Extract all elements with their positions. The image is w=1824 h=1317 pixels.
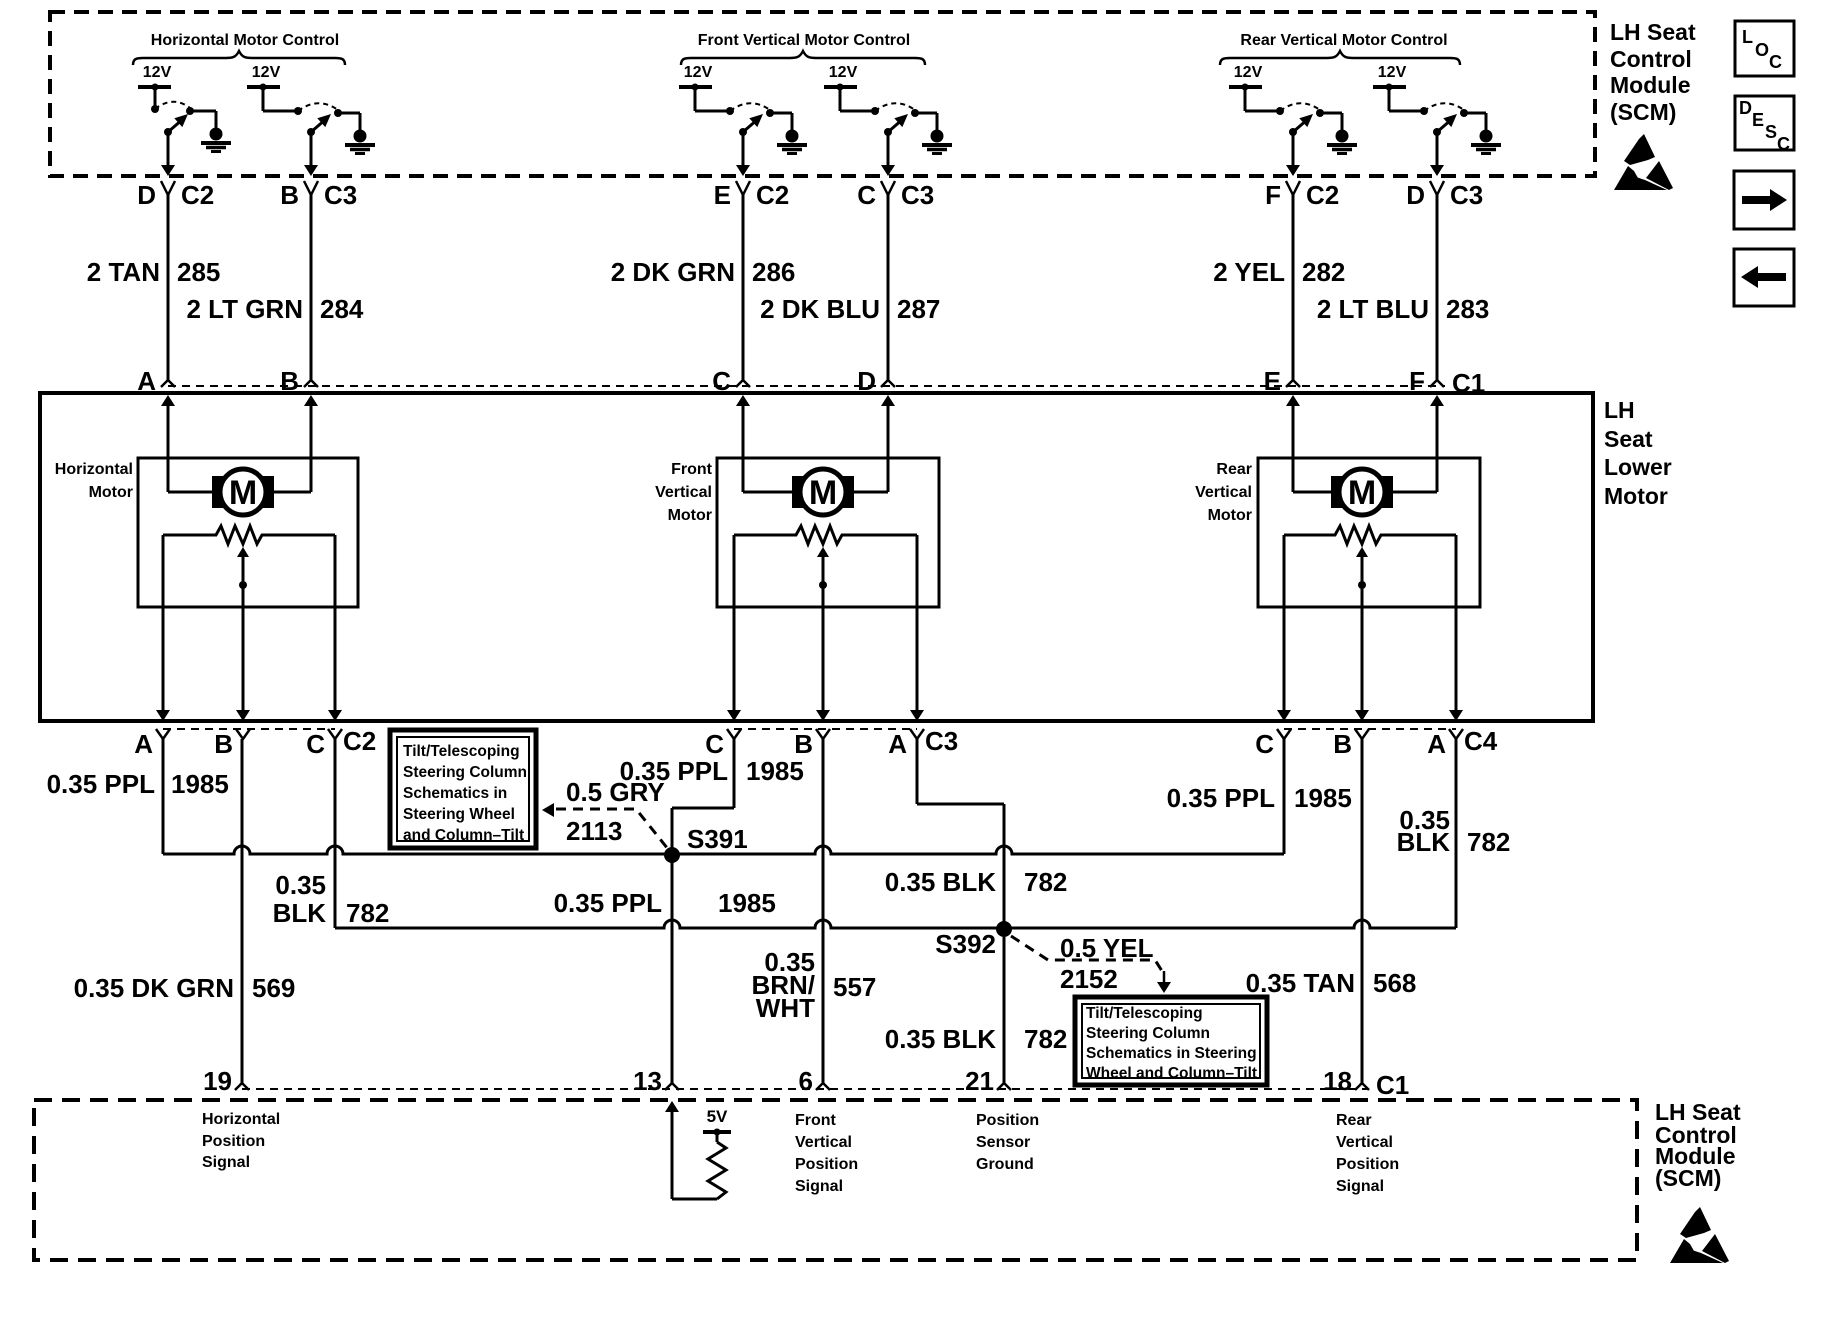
wire 2 LT BLU 283 <box>1317 195 1490 380</box>
label: LH Seat Control Module (SCM) bottom right <box>1655 1099 1741 1191</box>
svg-text:C3: C3 <box>1450 180 1483 210</box>
svg-text:F: F <box>1265 180 1281 210</box>
svg-text:S392: S392 <box>935 929 996 959</box>
svg-text:782: 782 <box>1467 827 1510 857</box>
svg-text:C: C <box>1777 134 1790 154</box>
svg-text:0.35 DK GRN: 0.35 DK GRN <box>74 973 234 1003</box>
pin 6 of SCM connector C1 <box>799 1066 830 1096</box>
ESD sensitivity symbol top right <box>1614 134 1673 190</box>
wire 2 YEL 282 <box>1213 195 1345 380</box>
label: Rear Vertical Motor Control <box>1220 32 1460 65</box>
wire 0.35 BRN/WHT 557 front vertical position signal <box>751 739 876 1083</box>
pin A of connector C2 <box>134 729 170 759</box>
label: Horizontal Position Signal <box>202 1111 280 1171</box>
wire 0.35 PPL 1985 net (horizontal position signal bus) <box>163 739 1284 854</box>
label: Horizontal Motor <box>55 461 133 501</box>
pin 13 of SCM connector C1 <box>633 1066 679 1096</box>
svg-text:D: D <box>1739 98 1752 118</box>
svg-text:2 DK BLU: 2 DK BLU <box>760 294 880 324</box>
pin D connector C2 of SCM <box>137 180 214 210</box>
wire Horizontal Motor pot right terminal <box>328 535 342 721</box>
svg-text:19: 19 <box>203 1066 232 1096</box>
svg-text:1985: 1985 <box>1294 783 1352 813</box>
svg-text:A: A <box>134 729 153 759</box>
module box: LH Seat Lower Motor <box>40 393 1593 721</box>
pin C connector C3 of SCM <box>857 180 934 210</box>
svg-text:568: 568 <box>1373 968 1416 998</box>
svg-text:C4: C4 <box>1464 726 1498 756</box>
wire into Horizontal Motor right <box>274 395 318 492</box>
wire 0.35 TAN 568 rear vertical position signal <box>1246 739 1417 1083</box>
svg-text:2 LT BLU: 2 LT BLU <box>1317 294 1429 324</box>
wire into Front Vertical Motor left <box>736 395 792 492</box>
splice S392 <box>935 921 1012 959</box>
pin B connector C3 of SCM <box>280 180 357 210</box>
svg-text:C2: C2 <box>181 180 214 210</box>
svg-text:C: C <box>1255 729 1274 759</box>
5V reference and pull-up resistor <box>665 1101 731 1199</box>
svg-text:18: 18 <box>1323 1066 1352 1096</box>
relay K3 front vertical up (12V SPDT motor control switch) <box>679 64 807 176</box>
svg-text:0.5 GRY: 0.5 GRY <box>566 777 665 807</box>
label: Rear Vertical Position Signal <box>1336 1112 1399 1195</box>
pin B of motor connector C1 <box>280 366 318 396</box>
label 0.35 PPL 1985 left <box>47 769 229 799</box>
leader 0.5 YEL 2152 to steering column schematics <box>1011 933 1171 994</box>
nav box: back arrow <box>1734 249 1794 306</box>
svg-text:782: 782 <box>1024 867 1067 897</box>
svg-text:L: L <box>1742 27 1753 47</box>
motor M: Front Vertical Motor <box>792 469 854 515</box>
connector C1 line (LH Seat Lower Motor top) <box>168 385 1445 387</box>
svg-text:C2: C2 <box>343 726 376 756</box>
pin 21 of SCM connector C1 <box>965 1066 1011 1096</box>
svg-text:557: 557 <box>833 972 876 1002</box>
pin E connector C2 of SCM <box>714 180 790 210</box>
svg-text:1985: 1985 <box>171 769 229 799</box>
svg-text:C2: C2 <box>1306 180 1339 210</box>
relay K1 horizontal fwd (12V SPDT motor control switch) <box>138 64 231 176</box>
wire 0.35 DK GRN 569 horizontal position signal <box>74 739 296 1083</box>
svg-text:M: M <box>809 474 837 512</box>
connector line C3 under Front Vertical Motor <box>734 728 917 730</box>
svg-text:0.35 BLK: 0.35 BLK <box>885 1024 996 1054</box>
svg-text:C3: C3 <box>324 180 357 210</box>
label: Position Sensor Ground <box>976 1112 1039 1173</box>
svg-text:2 DK GRN: 2 DK GRN <box>611 257 735 287</box>
pin B of connector C4 <box>1333 729 1369 759</box>
svg-text:D: D <box>137 180 156 210</box>
svg-text:0.35 PPL: 0.35 PPL <box>1167 783 1276 813</box>
wire Rear Vertical Motor pot wiper <box>1355 547 1369 721</box>
label: LH Seat Control Module (SCM) top right <box>1610 19 1696 125</box>
wire Horizontal Motor pot left terminal <box>156 535 170 721</box>
svg-text:O: O <box>1755 40 1769 60</box>
svg-text:E: E <box>1752 110 1764 130</box>
pin B of connector C2 <box>214 729 250 759</box>
svg-text:D: D <box>1406 180 1425 210</box>
svg-text:285: 285 <box>177 257 220 287</box>
svg-text:C2: C2 <box>756 180 789 210</box>
svg-text:0.35 BLK: 0.35 BLK <box>885 867 996 897</box>
wire 0.35 PPL 1985 from front motor pin C to S391 <box>620 739 804 854</box>
relay K2 horizontal rev (12V SPDT motor control switch) <box>247 64 375 176</box>
nav box: forward arrow <box>1734 171 1794 229</box>
svg-text:0.35 TAN: 0.35 TAN <box>1246 968 1355 998</box>
nav box: LOC <box>1735 21 1794 76</box>
pin A of connector C3 <box>888 729 924 759</box>
wire 2 DK BLU 287 <box>760 195 940 380</box>
svg-text:S: S <box>1765 122 1777 142</box>
svg-text:C3: C3 <box>925 726 958 756</box>
wire Horizontal Motor pot wiper <box>236 547 250 721</box>
svg-text:1985: 1985 <box>718 888 776 918</box>
svg-text:284: 284 <box>320 294 364 324</box>
wire Rear Vertical Motor pot right terminal <box>1449 535 1463 721</box>
svg-text:12V: 12V <box>252 64 281 81</box>
pin C of connector C4 <box>1255 729 1291 759</box>
connector C1 line (SCM bottom) <box>242 1088 1368 1090</box>
svg-text:283: 283 <box>1446 294 1489 324</box>
Rear Vertical Motor assembly outline <box>1258 458 1480 607</box>
wire Front Vertical Motor pot left terminal <box>727 535 741 721</box>
label: Rear Vertical Motor <box>1195 461 1252 524</box>
pin 19 of SCM connector C1 <box>203 1066 249 1096</box>
svg-text:21: 21 <box>965 1066 994 1096</box>
label 0.35 BLK 782 left <box>273 870 390 928</box>
svg-text:2 LT GRN: 2 LT GRN <box>186 294 303 324</box>
pin B of connector C3 <box>794 729 830 759</box>
svg-text:C1: C1 <box>1376 1070 1409 1100</box>
svg-text:0.35BLK: 0.35BLK <box>273 870 327 928</box>
connector line C4 under Rear Vertical Motor <box>1284 728 1456 730</box>
wire Rear Vertical Motor pot left terminal <box>1277 535 1291 721</box>
relay K6 rear vertical down (12V SPDT motor control switch) <box>1373 64 1501 176</box>
label: LH Seat Lower Motor <box>1604 397 1672 509</box>
svg-text:C: C <box>306 729 325 759</box>
motor M: Rear Vertical Motor <box>1331 469 1393 515</box>
svg-text:282: 282 <box>1302 257 1345 287</box>
wire into Horizontal Motor left <box>161 395 212 492</box>
pin D of motor connector C1 <box>857 366 895 396</box>
svg-text:0.35 PPL: 0.35 PPL <box>554 888 663 918</box>
wire 0.35 PPL 1985 from S391 to pin 13 <box>554 862 776 1083</box>
svg-text:12V: 12V <box>1378 64 1407 81</box>
svg-text:782: 782 <box>346 898 389 928</box>
svg-text:12V: 12V <box>684 64 713 81</box>
label 0.35 PPL 1985 right <box>1167 783 1352 813</box>
wire 2 TAN 285 <box>87 195 221 380</box>
splice S391 <box>664 824 748 863</box>
svg-text:13: 13 <box>633 1066 662 1096</box>
svg-text:Front Vertical Motor Control: Front Vertical Motor Control <box>698 32 910 49</box>
ESD sensitivity symbol bottom right <box>1670 1207 1729 1263</box>
svg-text:A: A <box>888 729 907 759</box>
svg-text:S391: S391 <box>687 824 748 854</box>
svg-text:5V: 5V <box>707 1107 728 1126</box>
svg-text:782: 782 <box>1024 1024 1067 1054</box>
svg-text:2113: 2113 <box>566 816 622 846</box>
module box: LH Seat Control Module (SCM), top <box>50 12 1595 176</box>
Front Vertical Motor assembly outline <box>717 458 939 607</box>
svg-text:12V: 12V <box>1234 64 1263 81</box>
connector line C2 under Horizontal Motor <box>163 728 335 730</box>
svg-text:PositionSensorGround: PositionSensorGround <box>976 1112 1039 1173</box>
svg-text:Horizontal Motor Control: Horizontal Motor Control <box>151 32 339 49</box>
relay K5 rear vertical up (12V SPDT motor control switch) <box>1229 64 1357 176</box>
relay K4 front vertical down (12V SPDT motor control switch) <box>824 64 952 176</box>
svg-text:0.5 YEL: 0.5 YEL <box>1060 933 1154 963</box>
motor M: Horizontal Motor <box>212 469 274 515</box>
svg-text:B: B <box>1333 729 1352 759</box>
pin F connector C2 of SCM <box>1265 180 1339 210</box>
pin C of motor connector C1 <box>712 366 750 396</box>
svg-text:C: C <box>705 729 724 759</box>
nav box: DESC <box>1735 96 1794 154</box>
svg-text:287: 287 <box>897 294 940 324</box>
pin A of motor connector C1 <box>137 366 175 396</box>
pin D connector C3 of SCM <box>1406 180 1483 210</box>
svg-text:C3: C3 <box>901 180 934 210</box>
svg-text:C: C <box>857 180 876 210</box>
Horizontal Motor assembly outline <box>138 458 358 607</box>
wire Front Vertical Motor pot right terminal <box>910 535 924 721</box>
svg-text:6: 6 <box>799 1066 813 1096</box>
svg-text:2 TAN: 2 TAN <box>87 257 160 287</box>
note box: Tilt/Telescoping Steering Column Schematics (left) <box>390 730 536 848</box>
svg-text:286: 286 <box>752 257 795 287</box>
label: Horizontal Motor Control <box>133 32 345 65</box>
svg-text:E: E <box>714 180 731 210</box>
svg-text:B: B <box>214 729 233 759</box>
svg-text:0.35 PPL: 0.35 PPL <box>47 769 156 799</box>
pin C of connector C2 <box>306 729 342 759</box>
svg-text:12V: 12V <box>143 64 172 81</box>
position sensor potentiometer of Front Vertical Motor <box>734 526 917 544</box>
wire 2 DK GRN 286 <box>611 195 796 380</box>
note box: Tilt/Telescoping Steering Column Schematics (right) <box>1075 997 1267 1085</box>
wire into Front Vertical Motor right <box>854 395 895 492</box>
svg-text:569: 569 <box>252 973 295 1003</box>
leader 0.5 GRY 2113 to steering column schematics <box>542 777 668 849</box>
svg-text:M: M <box>1348 474 1376 512</box>
pin F of motor connector C1 <box>1409 366 1444 396</box>
wire 0.35 BLK 782 from S392 to pin 21 <box>885 937 1068 1083</box>
svg-text:2152: 2152 <box>1060 964 1118 994</box>
wire 0.35 BLK 782 from front motor pin A to S392 <box>885 739 1068 928</box>
svg-text:0.35BLK: 0.35BLK <box>1397 805 1451 857</box>
pin 18 of SCM connector C1 <box>1323 1066 1369 1096</box>
label: Front Vertical Motor <box>655 461 713 524</box>
wire into Rear Vertical Motor right <box>1393 395 1444 492</box>
svg-text:12V: 12V <box>829 64 858 81</box>
pin C of connector C3 <box>705 729 741 759</box>
label: Front Vertical Motor Control <box>681 32 925 65</box>
wire 2 LT GRN 284 <box>186 195 363 380</box>
svg-text:B: B <box>280 180 299 210</box>
position sensor potentiometer of Rear Vertical Motor <box>1284 526 1456 544</box>
wire into Rear Vertical Motor left <box>1286 395 1331 492</box>
module box: LH Seat Control Module (SCM), bottom <box>34 1100 1637 1260</box>
svg-text:B: B <box>794 729 813 759</box>
wire Front Vertical Motor pot wiper <box>816 547 830 721</box>
svg-text:A: A <box>1427 729 1446 759</box>
label: Front Vertical Position Signal <box>795 1112 858 1195</box>
position sensor potentiometer of Horizontal Motor <box>163 526 335 544</box>
svg-text:M: M <box>229 474 257 512</box>
pin A of connector C4 <box>1427 729 1463 759</box>
svg-text:2 YEL: 2 YEL <box>1213 257 1285 287</box>
svg-text:C: C <box>1769 52 1782 72</box>
svg-text:1985: 1985 <box>746 756 804 786</box>
label 0.35 BLK 782 right <box>1397 805 1511 857</box>
pin E of motor connector C1 <box>1264 366 1300 396</box>
wire 0.35 BLK 782 net (position sensor ground bus) <box>335 739 1456 928</box>
svg-text:Rear Vertical Motor Control: Rear Vertical Motor Control <box>1240 32 1447 49</box>
